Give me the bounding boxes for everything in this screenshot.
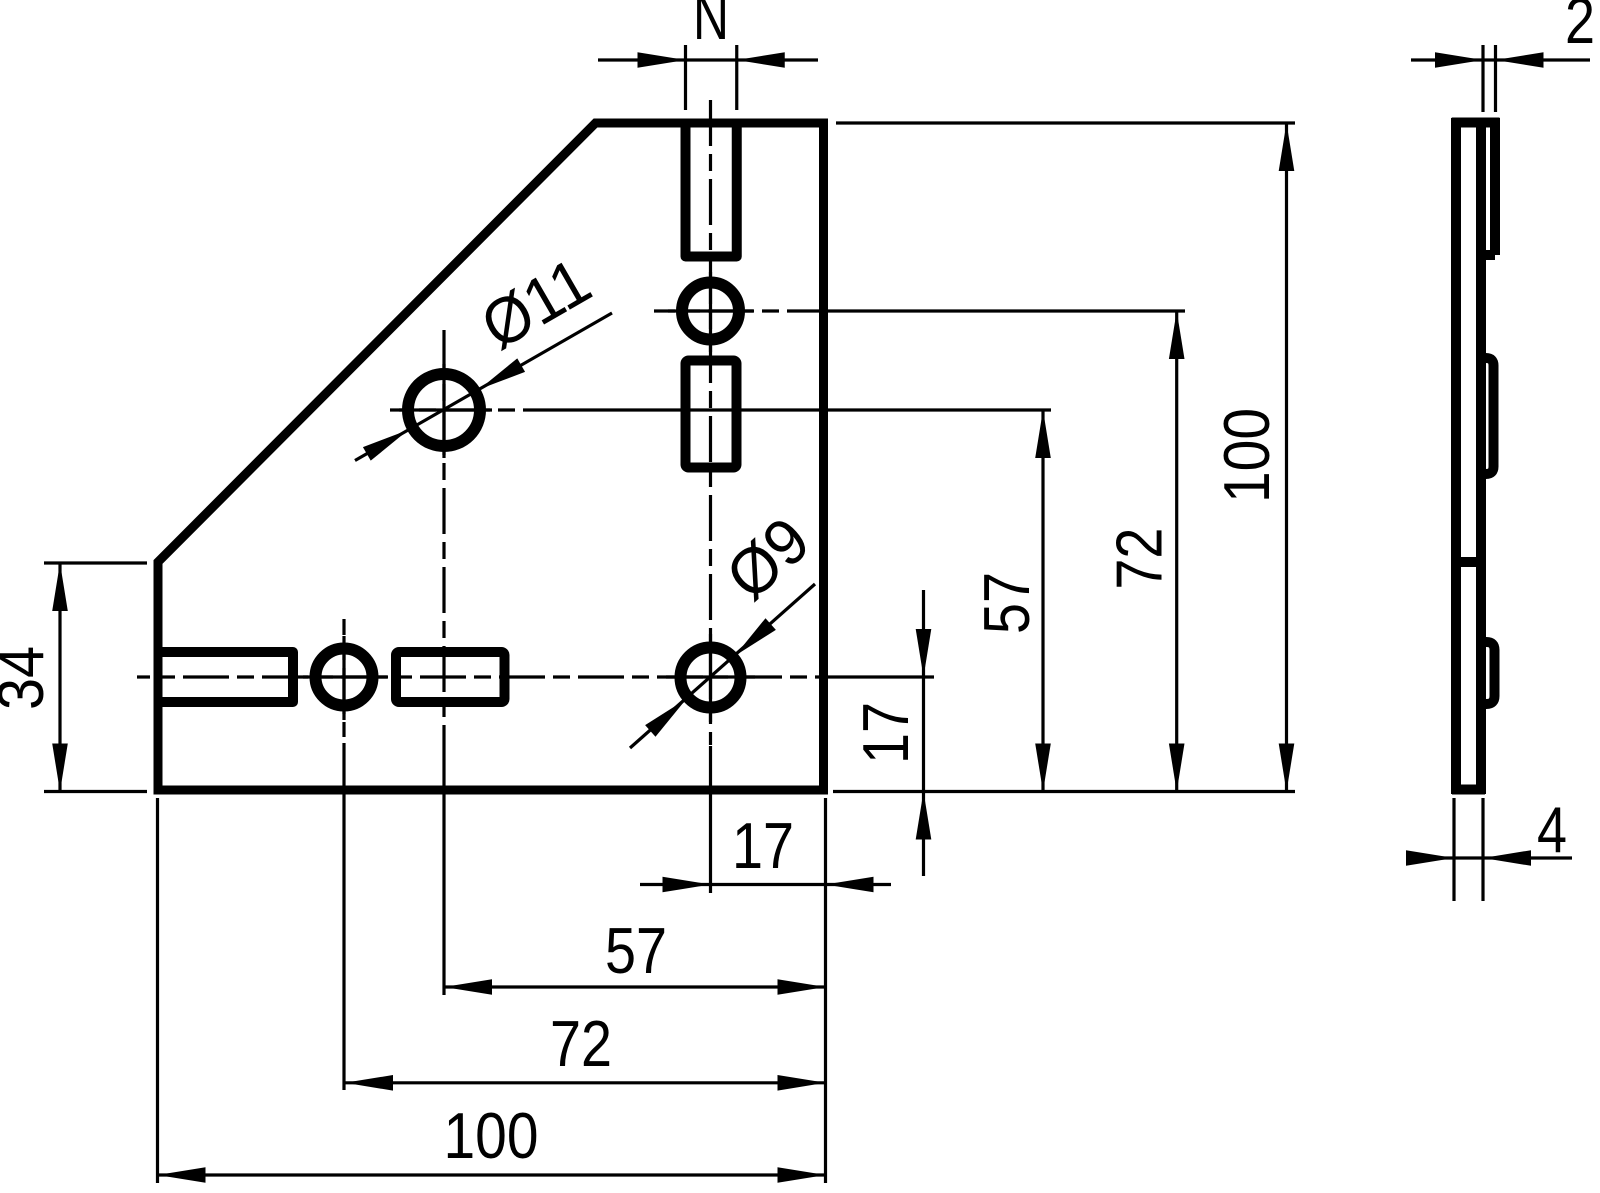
svg-text:N: N bbox=[693, 0, 729, 53]
svg-text:2: 2 bbox=[1565, 0, 1595, 57]
svg-text:72: 72 bbox=[1103, 528, 1176, 590]
svg-text:17: 17 bbox=[732, 809, 794, 882]
svg-text:57: 57 bbox=[605, 914, 667, 987]
svg-text:57: 57 bbox=[970, 572, 1043, 634]
svg-text:4: 4 bbox=[1537, 793, 1567, 866]
svg-text:34: 34 bbox=[0, 646, 57, 710]
svg-text:72: 72 bbox=[550, 1007, 612, 1080]
svg-text:17: 17 bbox=[849, 702, 922, 764]
svg-text:100: 100 bbox=[444, 1099, 539, 1172]
svg-text:100: 100 bbox=[1210, 408, 1283, 503]
